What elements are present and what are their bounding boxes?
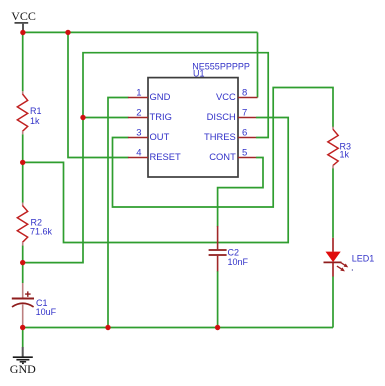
svg-text:VCC: VCC xyxy=(11,9,36,23)
wire LED to rail xyxy=(332,276,334,327)
wire R1 to R2 xyxy=(22,134,24,203)
wire CONT net xyxy=(218,158,263,227)
wire C1 top lead green part xyxy=(22,263,24,283)
svg-text:1k: 1k xyxy=(30,116,40,126)
svg-text:OUT: OUT xyxy=(150,131,170,142)
svg-text:5: 5 xyxy=(242,148,247,159)
svg-text:10nF: 10nF xyxy=(228,257,249,267)
svg-text:CONT: CONT xyxy=(209,151,236,162)
svg-text:VCC: VCC xyxy=(216,91,236,102)
junction node C2-rail xyxy=(215,325,220,330)
svg-text:U1: U1 xyxy=(193,68,205,78)
svg-text:10uF: 10uF xyxy=(36,307,57,317)
svg-text:RESET: RESET xyxy=(150,151,182,162)
svg-text:THRES: THRES xyxy=(204,131,236,142)
pin 5 CONT stub xyxy=(238,157,256,159)
svg-text:2: 2 xyxy=(136,108,141,119)
junction node VCC-left xyxy=(20,30,25,35)
svg-text:R1: R1 xyxy=(30,106,42,116)
wire RESET to VCC rail xyxy=(68,32,129,157)
wire C2 bottom green xyxy=(217,271,219,328)
wire TRIG-THRES net xyxy=(23,53,269,263)
junction node RESET-rail xyxy=(65,30,70,35)
junction node R2-C1 xyxy=(20,260,25,265)
wire TRIG branch to pin2 xyxy=(83,117,129,119)
svg-text:LED1: LED1 xyxy=(352,253,375,263)
svg-text:1k: 1k xyxy=(340,150,350,160)
resistor R1 xyxy=(17,91,27,134)
wire GND symbol stem green xyxy=(22,328,24,348)
wire pin8 VCC drop xyxy=(257,32,259,97)
svg-text:C2: C2 xyxy=(228,248,240,258)
resistor R2 xyxy=(17,203,27,246)
junction node pin1-rail xyxy=(105,325,110,330)
pin 1 GND stub xyxy=(128,97,148,99)
capacitor C1 (polarized) xyxy=(12,283,34,328)
svg-text:1: 1 xyxy=(136,88,141,99)
svg-text:GND: GND xyxy=(150,91,171,102)
pin 8 VCC stub xyxy=(238,97,258,99)
wire OUT net to R3 xyxy=(113,88,334,208)
svg-text:GND: GND xyxy=(10,362,36,376)
pin 7 DISCH stub xyxy=(238,117,256,119)
resistor R3 xyxy=(328,127,338,169)
svg-text:6: 6 xyxy=(242,128,247,139)
VCC power symbol xyxy=(15,23,29,33)
junction node GND-rail-left xyxy=(20,325,25,330)
svg-text:7: 7 xyxy=(242,108,247,119)
svg-text:TRIG: TRIG xyxy=(150,111,172,122)
svg-text:8: 8 xyxy=(242,88,247,99)
wire R2 to C1 xyxy=(22,246,24,263)
pin 6 THRES stub xyxy=(238,137,256,139)
LED LED1 xyxy=(324,238,353,277)
junction node R1-R2 xyxy=(20,160,25,165)
svg-text:71.6k: 71.6k xyxy=(30,227,53,237)
wire DISCH net xyxy=(23,118,289,243)
wire R3 to LED xyxy=(332,168,334,238)
wire GND pin1 to rail xyxy=(108,98,129,328)
svg-text:DISCH: DISCH xyxy=(207,111,236,122)
wire VCC to R1 xyxy=(22,32,24,91)
wire bottom GND rail xyxy=(23,327,333,329)
junction node TRIG tap xyxy=(80,115,85,120)
ground symbol xyxy=(13,347,33,363)
capacitor C2 xyxy=(209,226,227,271)
wire top VCC rail xyxy=(23,31,258,33)
pin 2 TRIG stub xyxy=(128,117,148,119)
svg-text:4: 4 xyxy=(136,148,141,159)
pin 4 RESET stub xyxy=(128,157,148,159)
svg-text:3: 3 xyxy=(136,128,141,139)
pin 3 OUT stub xyxy=(128,137,148,139)
op-amp U1 box xyxy=(148,78,238,177)
